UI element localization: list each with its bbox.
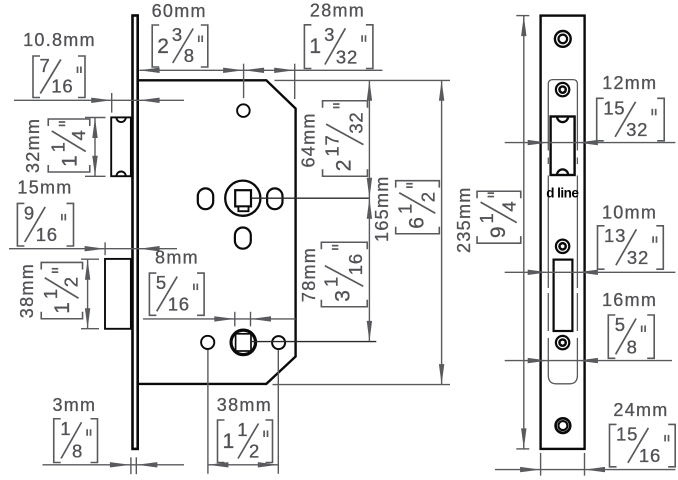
dim 3mm line [43,464,185,466]
grub screw mid [556,240,569,253]
svg-text:1: 1 [309,35,321,58]
dim 16mm bracket [608,315,615,358]
svg-text:8: 8 [184,45,195,66]
svg-text:1: 1 [40,288,61,299]
svg-text:16: 16 [639,445,661,466]
dim 32mm arrows [92,118,97,139]
dim 64mm line [368,80,370,341]
svg-text:78mm: 78mm [299,247,319,302]
svg-text:6: 6 [406,217,429,229]
lock case outline [138,80,295,384]
svg-text:16: 16 [168,293,190,314]
svg-text:1: 1 [58,155,81,167]
hub centerline [252,197,370,199]
dim 78mm arrows [367,198,372,219]
dim 16mm arrows [528,358,549,363]
svg-text:9: 9 [487,226,510,238]
svg-text:15: 15 [603,97,625,118]
svg-text:38mm: 38mm [17,263,37,318]
svg-text:4: 4 [68,129,89,140]
left M5 slot at hub level [198,188,213,209]
svg-text:15mm: 15mm [17,177,72,197]
dim 12mm line [505,142,676,144]
dim 38mm-left label [17,263,37,318]
dim 15mm bracket [17,203,24,246]
svg-text:8: 8 [627,336,638,357]
dim 8mm line [143,318,296,320]
svg-text:64mm: 64mm [299,112,319,167]
latch bolt (side view) 32mm box [111,117,131,176]
dim 8mm bracket [149,273,156,315]
svg-text:2: 2 [417,191,438,202]
dim 10mm arrows [528,270,549,275]
svg-text:7: 7 [40,55,51,76]
svg-text:12mm: 12mm [602,73,657,93]
dim 3mm arrows [110,462,130,467]
dim 235mm line [523,16,525,449]
dim 24mm ext lines [540,453,542,476]
svg-text:d line: d line [546,186,579,201]
svg-text:2: 2 [157,35,169,58]
dim 38mm-bottom bracket [218,420,225,463]
spindle square tab [238,206,248,211]
svg-text:32: 32 [626,119,648,140]
svg-text:1: 1 [395,203,416,214]
dim 60mm arrows [139,68,160,73]
svg-text:16mm: 16mm [602,290,657,310]
grub screw lower [556,336,569,349]
svg-text:1: 1 [223,430,235,453]
forend plate outline [541,16,585,449]
svg-text:2: 2 [249,441,260,462]
top wood screw hole [555,31,571,47]
right M5 slot at hub level [267,188,282,209]
svg-text:5: 5 [615,314,626,335]
dim 38mm-left line [87,259,89,329]
dim 38mm-bottom ext lines [207,350,209,474]
dim 60mm ticks [243,64,245,98]
dim 12mm bracket [597,98,604,141]
dim 24mm bracket [610,424,617,466]
svg-text:8: 8 [72,441,83,462]
dim 15mm line [9,248,177,250]
lower left fixing hole [201,336,214,349]
svg-text:16: 16 [51,76,73,97]
lower right fixing hole [272,336,285,349]
top fixing hole [237,104,250,117]
svg-text:16: 16 [345,253,366,275]
dim 32mm label [23,118,43,173]
dim 235mm label [454,186,474,253]
dim 32mm ticks [85,117,106,119]
dim 24mm line [495,469,675,471]
dim 10mm line [505,271,676,273]
bottom wood screw hole [556,418,571,433]
dim 28mm arrows [244,68,265,73]
dim 32mm bracket [47,119,90,172]
dim 38mm-left bracket [40,262,82,318]
case bottom extension line [273,384,451,386]
dim 3mm ticks [130,457,132,474]
forend cutout aperture [548,80,577,384]
dim 60mm line [139,69,382,71]
svg-text:1: 1 [476,212,497,223]
dim 64mm arrows [367,80,372,101]
dim 38mm-left arrows [85,259,90,280]
lower follower square [236,334,251,351]
svg-text:10mm: 10mm [602,202,657,222]
svg-text:28mm: 28mm [310,0,365,20]
dim 38mm-bottom arrows [208,462,229,467]
faceplate (side view, 3mm plate) [133,16,138,449]
svg-text:2: 2 [333,160,356,172]
lower follower ring (8mm) [231,330,256,355]
dim 38mm-bottom line [208,464,278,466]
dim 10.8mm bracket [33,56,40,98]
svg-text:1: 1 [60,418,71,439]
dim 28mm bracket [304,25,311,69]
svg-text:2: 2 [61,276,82,287]
dim 165mm arrows [439,80,444,101]
svg-text:32: 32 [627,247,649,268]
svg-text:4: 4 [499,201,520,212]
dim 16mm line [505,360,672,362]
svg-text:1: 1 [237,419,248,440]
svg-text:1: 1 [47,141,68,152]
svg-text:32: 32 [345,111,366,133]
svg-text:38mm: 38mm [217,395,272,415]
dim 15mm tick [104,242,106,255]
svg-text:16: 16 [36,224,58,245]
dim 38mm-left ticks [81,258,99,260]
svg-text:3mm: 3mm [52,395,96,415]
svg-text:1: 1 [51,302,74,314]
svg-text:3: 3 [172,24,183,45]
svg-text:10.8mm: 10.8mm [23,30,96,50]
svg-text:32: 32 [336,47,358,68]
svg-text:24mm: 24mm [613,400,668,420]
deadbolt (front view) [554,260,573,331]
svg-text:15: 15 [616,423,638,444]
dim 64mm bracket [322,101,368,177]
svg-text:1: 1 [320,276,341,287]
dim 10mm bracket [598,226,605,269]
svg-text:60mm: 60mm [152,1,207,21]
dim 10.8mm tick [111,93,113,113]
svg-text:13: 13 [604,225,626,246]
grub screw in latch aperture [556,83,569,96]
dim 165mm label [372,175,392,242]
spindle hub circle [225,181,260,216]
dim 235mm arrows [521,16,526,36]
dim 24mm arrows [520,467,541,472]
dim 8mm arrows [214,316,235,321]
svg-text:5: 5 [156,272,167,293]
deadbolt (side view) 38mm box [105,259,131,329]
svg-text:8mm: 8mm [155,248,199,268]
dim 64mm label [299,112,319,167]
dim 235mm bracket [476,191,521,243]
follower centerline [252,341,376,343]
svg-text:9: 9 [24,202,35,223]
dim 78mm label [299,247,319,302]
svg-text:3: 3 [331,290,354,302]
dim 8mm ticks [234,312,236,327]
dim 32mm line [94,118,96,177]
svg-text:17: 17 [322,134,343,156]
dim 78mm bracket [320,242,367,307]
slot below hub [235,228,251,249]
svg-text:235mm: 235mm [454,186,474,253]
dim 3mm bracket [54,419,61,463]
svg-text:165mm: 165mm [372,175,392,242]
case top extension line [275,79,451,81]
dim 15mm arrows [85,246,106,251]
dim 12mm arrows [528,140,549,145]
latch bolt (front view) [551,117,575,176]
dim 165mm bracket [395,181,440,234]
svg-text:32mm: 32mm [23,118,43,173]
dim 165mm line [441,80,443,384]
dim 235mm ticks [516,15,529,17]
spindle square follower [235,190,251,206]
dim 60mm bracket [152,25,159,67]
svg-text:3: 3 [324,24,335,45]
dim 10.8mm arrows [91,98,112,103]
dim 10.8mm line [14,99,184,101]
